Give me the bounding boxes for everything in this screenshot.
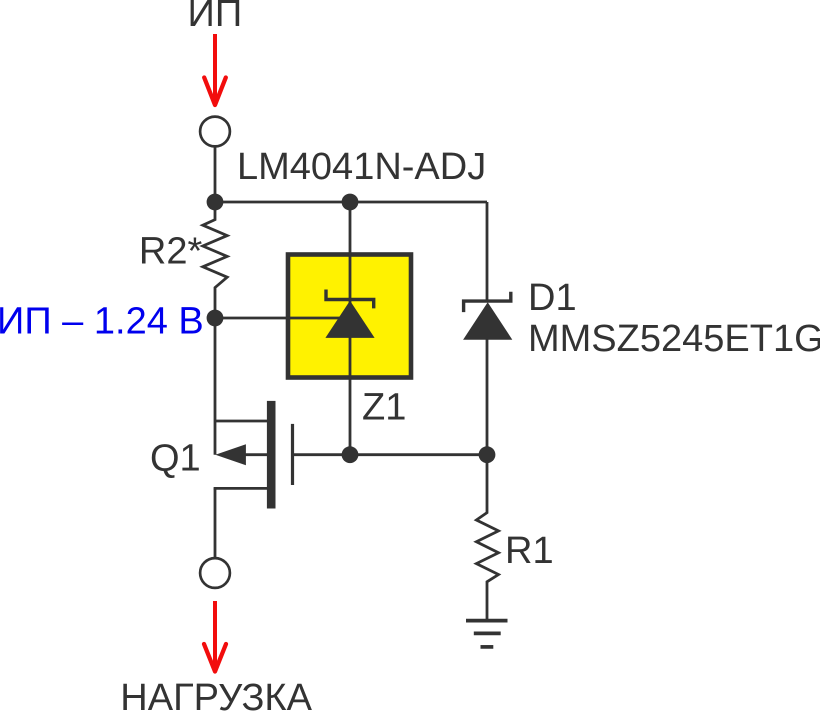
svg-text:R1: R1 [505,530,554,572]
svg-text:D1: D1 [528,277,577,319]
svg-text:ИП – 1.24 В: ИП – 1.24 В [0,301,204,343]
svg-text:ИП: ИП [188,0,243,35]
svg-text:R2*: R2* [139,231,203,273]
svg-text:MMSZ5245ET1G: MMSZ5245ET1G [528,318,820,360]
svg-text:Z1: Z1 [362,387,406,429]
svg-text:LM4041N-ADJ: LM4041N-ADJ [237,146,486,188]
svg-text:Q1: Q1 [150,437,201,479]
svg-text:НАГРУЗКА: НАГРУЗКА [120,677,312,713]
